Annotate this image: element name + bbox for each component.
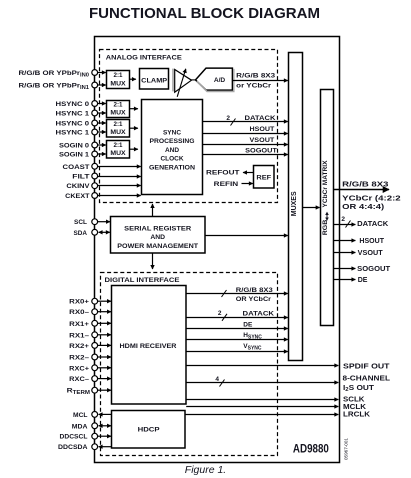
wire SPDIF out [186,365,338,367]
svg-text:SOGOUT: SOGOUT [357,266,391,273]
wire hsync1 to mux2 [97,112,105,114]
svg-text:REFIN: REFIN [214,181,239,188]
pin RXC+ [92,365,98,371]
wire rx0- [97,311,111,313]
svg-text:SOGIN 1: SOGIN 1 [59,152,89,159]
svg-text:YCbCr (4:2:2: YCbCr (4:2:2 [342,196,401,203]
pin RX1- [92,332,98,338]
wire rx0+ [97,300,111,302]
big RGB output arrow [334,189,390,191]
wire mux1 to clamp [130,78,136,80]
svg-text:OR 4:4:4): OR 4:4:4) [342,204,384,211]
svg-text:RX2–: RX2– [69,355,89,362]
wire matrix DE out [334,279,356,281]
svg-text:2: 2 [341,216,345,223]
svg-text:YCbCr MATRIX: YCbCr MATRIX [322,160,329,208]
svg-text:COAST: COAST [63,164,91,171]
svg-text:R/G/B 8X3: R/G/B 8X3 [236,287,273,294]
wire I2S out [186,382,338,384]
svg-text:DATACK: DATACK [243,310,275,317]
svg-text:SPDIF OUT: SPDIF OUT [343,363,390,370]
slash on hdmi rgb wire [222,290,227,297]
svg-text:CKINV: CKINV [66,183,90,190]
svg-text:VSOUT: VSOUT [250,137,275,144]
svg-text:RGB: RGB [322,219,329,235]
svg-text:2:1: 2:1 [114,102,124,109]
svg-text:RX0–: RX0– [69,309,89,316]
svg-text:HDCP: HDCP [138,427,161,434]
wire rxc+ [97,367,111,369]
svg-text:SOGIN 0: SOGIN 0 [59,143,89,150]
pin DDCSCL [92,433,98,439]
svg-text:CKEXT: CKEXT [65,193,90,200]
wire refin [242,183,253,185]
svg-text:MCL: MCL [73,412,88,419]
wire hsync0 to mux2 [97,103,105,105]
pin HSYNC 0 [92,101,98,107]
wire ddcsda to hdcp [99,446,112,448]
wire vsync1 to mux3 [97,131,105,133]
svg-text:DE: DE [358,277,368,284]
pin DDCSDA [92,444,98,450]
svg-text:MUX: MUX [110,110,126,117]
pin VSYNC 0 [92,120,98,126]
ycbcr matrix block [321,90,334,326]
analog interface dashed box [100,50,278,203]
svg-text:CLOCK: CLOCK [160,156,183,163]
svg-text:A/D: A/D [214,77,226,84]
wire pin RGB in1 to mux1 [97,84,105,86]
svg-text:R/G/B 8X3: R/G/B 8X3 [236,73,275,80]
mux M3 (VSYNC) [107,120,130,138]
wire sogin0 to mux4 [97,144,105,146]
wire matrix HSOUT out [334,240,356,242]
svg-text:Figure 1.: Figure 1. [185,464,226,476]
wire hdmi RGB out to muxes [186,293,288,295]
svg-text:SCLK: SCLK [343,396,365,403]
wire ckinv to sync block [97,185,140,187]
svg-text:OR YCbCr: OR YCbCr [236,296,272,303]
svg-text:R/G/B 8X3: R/G/B 8X3 [342,182,388,189]
wire matrix VSOUT out [334,252,356,254]
wire mux2 to sync [130,108,138,110]
wire matrix SOGOUT out [334,268,356,270]
svg-text:RX1+: RX1+ [69,321,89,328]
variable gain amp triangle [173,69,192,97]
svg-text:HSOUT: HSOUT [359,238,384,245]
pin RX0+ [92,298,98,304]
wire sda bidirectional [99,231,110,233]
svg-text:2: 2 [218,310,222,317]
wire SCLK [186,399,338,401]
svg-text:R/G/B OR YPbPrIN0: R/G/B OR YPbPrIN0 [19,70,90,78]
wire LRCLK [185,414,338,416]
svg-text:MCLK: MCLK [343,404,366,411]
svg-text:LRCLK: LRCLK [343,411,370,418]
svg-text:FUNCTIONAL BLOCK DIAGRAM: FUNCTIONAL BLOCK DIAGRAM [89,5,320,22]
A/D converter [191,68,234,91]
wire filt to sync block [97,176,140,178]
svg-text:4: 4 [215,376,219,383]
svg-text:FILT: FILT [72,174,90,181]
svg-text:ANALOG INTERFACE: ANALOG INTERFACE [106,55,183,62]
mux M4 (SOG) [107,141,130,159]
pin MDA [92,423,98,429]
chip outline AD9880 [95,37,340,463]
wire mda bidirectional [99,425,111,427]
HDMI receiver block [112,286,187,405]
wire sync HSOUT to muxes [203,133,288,135]
svg-text:2:1: 2:1 [114,72,124,79]
pin SCL [92,219,98,225]
wire hdmi HSYNC to muxes [186,339,288,341]
wire rxc- [97,378,111,380]
pin R/G/B OR YPbPr IN1 [92,82,98,88]
svg-text:POWER MANAGEMENT: POWER MANAGEMENT [117,243,199,250]
svg-text:RX1–: RX1– [69,332,89,339]
svg-text:HSOUT: HSOUT [250,126,275,133]
svg-text:I2S OUT: I2S OUT [343,385,375,393]
pin CKEXT [92,193,98,199]
wire MCLK [186,406,338,408]
pin RX2+ [92,343,98,349]
left pin labels [19,70,91,451]
svg-text:DATACK: DATACK [357,221,388,228]
svg-text:VSYNC: VSYNC [243,343,262,351]
wire scl to serial register [97,221,110,223]
pin SOGIN 1 [92,151,98,157]
svg-text:SCL: SCL [74,219,87,226]
svg-text:RXC+: RXC+ [69,365,89,372]
svg-text:8-CHANNEL: 8-CHANNEL [343,376,391,383]
mux M2 (HSYNC) [107,101,130,118]
svg-text:VSOUT: VSOUT [358,250,384,257]
wire sync SOGOUT to muxes [203,154,288,156]
pin RX1+ [92,320,98,326]
wire mcl output from hdcp [99,413,112,415]
pin RX2- [92,354,98,360]
pin CKINV [92,183,98,189]
wire serial up arrow [152,204,154,217]
svg-text:RX2+: RX2+ [69,343,89,350]
svg-text:DIGITAL INTERFACE: DIGITAL INTERFACE [105,277,181,284]
pin RX0- [92,309,98,315]
svg-text:AND: AND [165,147,179,154]
svg-text:or YCbCr: or YCbCr [236,82,272,89]
wire ddcscl input [97,435,111,437]
wire hdmi DE to muxes [186,328,288,330]
HDCP block [112,411,186,449]
wire serial down arrow [152,253,154,269]
svg-text:GENERATION: GENERATION [149,164,195,171]
svg-text:REFOUT: REFOUT [206,170,240,177]
wire rterm [97,389,111,391]
wire serial to muxes [205,235,288,237]
slash 2 on hdmi datack [222,314,227,321]
svg-text:MUX: MUX [110,150,126,157]
svg-text:RXC–: RXC– [69,376,89,383]
wire mux3 to sync [130,127,138,129]
pin RTERM [92,387,98,393]
svg-text:DDCSDA: DDCSDA [58,444,88,451]
svg-text:HSYNC 0: HSYNC 0 [56,121,90,128]
slash 2 on datack [231,119,236,126]
mux M1 (YPbPr) [107,71,130,89]
pin MCL [92,412,98,418]
svg-text:MUXES: MUXES [291,191,298,216]
svg-text:2:1: 2:1 [114,121,124,128]
wire rx1+ [97,322,111,324]
serial register block [111,217,206,254]
pin FILT [92,173,98,179]
pin R/G/B OR YPbPr IN0 [92,70,98,76]
svg-text:SDA: SDA [74,230,88,237]
wire hdmi DATACK to muxes [186,317,288,319]
svg-text:MUX: MUX [110,129,126,136]
wire muxes to matrix [303,207,320,209]
pin HSYNC 1 [92,110,98,116]
wire rx2+ [97,344,111,346]
svg-text:PROCESSING: PROCESSING [150,138,195,145]
pin RXC- [92,376,98,382]
wire rx2- [97,356,111,358]
svg-text:R/G/B OR YPbPrIN1: R/G/B OR YPbPrIN1 [19,83,90,91]
svg-text:HDMI RECEIVER: HDMI RECEIVER [120,343,177,350]
svg-text:RTERM: RTERM [67,388,90,396]
svg-text:AND: AND [150,234,165,241]
slash 2 matrix datack [346,221,351,228]
wire mux4 to sync [130,148,138,150]
wire hdmi VSYNC to muxes [186,351,288,353]
pin SDA [92,229,98,235]
svg-text:MDA: MDA [72,423,88,430]
slash 4 on i2s [220,380,225,387]
wire sogin1 to mux4 [97,153,105,155]
clamp block [140,69,169,90]
svg-text:HSYNC 0: HSYNC 0 [56,101,90,108]
sync processing block [142,100,203,195]
svg-text:DE: DE [243,322,253,329]
svg-text:SERIAL REGISTER: SERIAL REGISTER [124,225,191,232]
svg-text:05967-001: 05967-001 [344,438,349,460]
svg-text:MUX: MUX [110,80,126,87]
wire sync DATACK to muxes [203,121,288,123]
wire sync VSOUT to muxes [203,144,288,146]
svg-text:DDCSCL: DDCSCL [60,434,88,441]
wire refout [243,172,254,174]
wire A/D to muxes [233,80,288,82]
REF block [254,166,275,189]
wire vsync0 to mux3 [97,122,105,124]
wire matrix DATACK out [334,224,356,226]
wire coast to sync block [97,166,140,168]
svg-text:2: 2 [226,115,230,122]
svg-text:2:1: 2:1 [114,142,124,149]
svg-text:RX0+: RX0+ [69,299,89,306]
svg-text:SYNC: SYNC [163,130,181,137]
wire rx1- [97,334,111,336]
wire pin RGB in0 to mux1 [97,72,105,74]
muxes block [289,53,303,361]
svg-text:SOGOUT: SOGOUT [245,148,277,155]
digital interface dashed box [101,273,278,456]
pin VSYNC 1 [92,129,98,135]
pin SOGIN 0 [92,142,98,148]
svg-text:HSYNC 1: HSYNC 1 [56,111,90,118]
wire ckext to sync block [97,195,140,197]
svg-text:HSYNC 1: HSYNC 1 [56,130,90,137]
svg-text:REF: REF [256,174,271,181]
svg-text:AD9880: AD9880 [293,442,329,456]
svg-text:CLAMP: CLAMP [141,77,168,84]
pin COAST [92,163,98,169]
svg-text:DATACK: DATACK [245,115,276,122]
